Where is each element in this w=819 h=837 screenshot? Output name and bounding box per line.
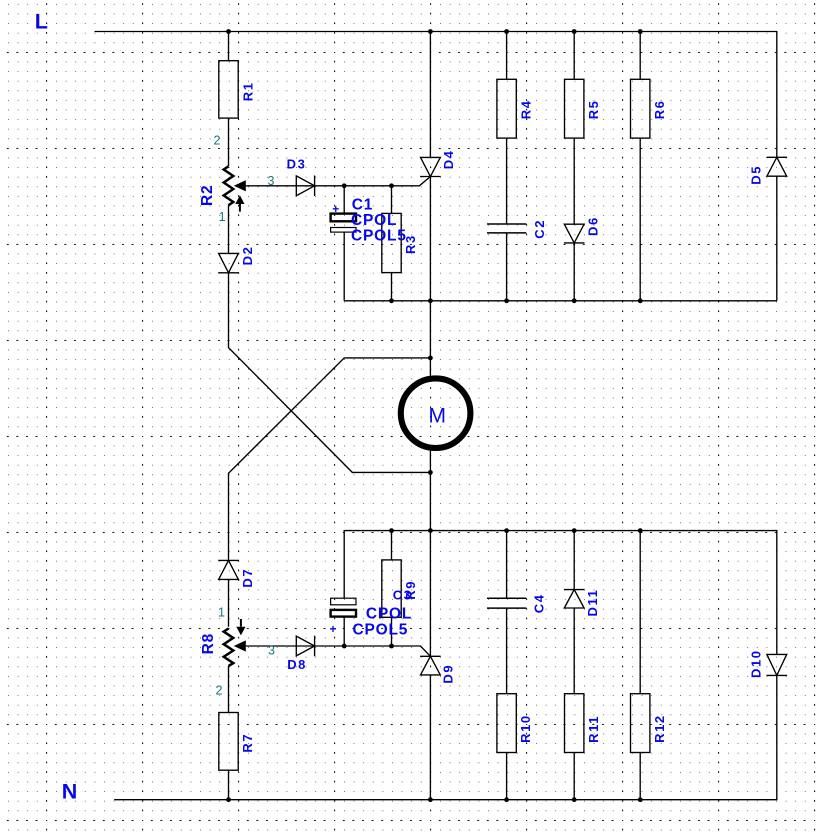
svg-text:D2: D2 [240,246,255,266]
svg-text:R2: R2 [199,185,216,206]
svg-text:C4: C4 [532,593,547,613]
svg-text:R11: R11 [586,715,601,743]
svg-text:C2: C2 [532,219,547,239]
svg-text:D11: D11 [585,589,600,617]
svg-text:D4: D4 [441,149,456,169]
svg-text:R4: R4 [519,99,534,119]
svg-text:CPOL: CPOL [351,212,397,229]
svg-text:D6: D6 [585,216,600,236]
svg-text:C1: C1 [352,197,373,214]
svg-text:R1: R1 [241,81,256,101]
svg-text:M: M [429,405,447,428]
svg-text:N: N [62,779,78,803]
svg-text:L: L [35,10,48,34]
svg-text:CPOL: CPOL [366,606,412,623]
svg-text:CPOL5: CPOL5 [351,228,407,245]
svg-text:1: 1 [219,210,226,224]
svg-text:D7: D7 [240,568,255,588]
svg-text:CPOL5: CPOL5 [353,622,409,639]
svg-text:3: 3 [268,644,275,658]
svg-text:3: 3 [268,174,275,188]
svg-text:D8: D8 [287,657,307,672]
svg-text:+: + [332,202,339,216]
svg-text:2: 2 [214,134,221,148]
svg-text:2: 2 [216,683,223,697]
svg-text:D10: D10 [748,649,763,678]
svg-text:R6: R6 [652,99,667,119]
svg-text:+: + [330,622,337,636]
svg-text:R3: R3 [403,234,418,254]
svg-text:D3: D3 [287,157,307,172]
svg-text:R7: R7 [240,733,255,753]
svg-text:D5: D5 [748,165,763,185]
svg-text:R12: R12 [652,714,667,743]
svg-text:R10: R10 [518,714,533,743]
svg-text:R5: R5 [586,99,601,119]
svg-text:R9: R9 [403,580,418,600]
svg-text:R8: R8 [200,633,217,654]
svg-text:1: 1 [218,605,225,619]
svg-text:D9: D9 [441,664,456,684]
